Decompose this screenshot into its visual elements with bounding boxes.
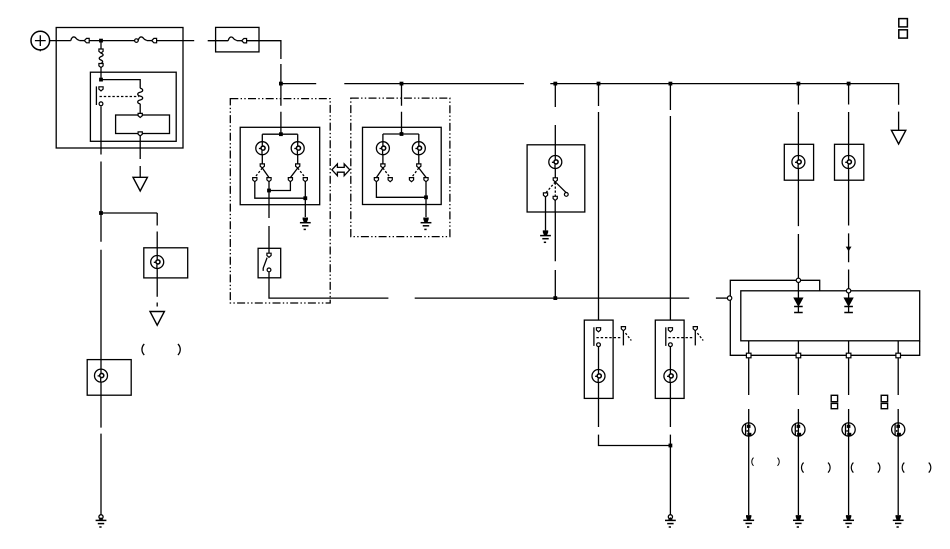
- label parens left: [142, 344, 144, 355]
- wire to coil: [101, 80, 140, 89]
- wire into headlamp LH: [280, 84, 282, 135]
- headlamp RH dash-dot enclosure: [351, 98, 450, 237]
- wire to marker lamp B: [848, 84, 850, 156]
- wire: [157, 40, 195, 42]
- switch S1: [268, 248, 270, 253]
- relay K1 coil: [138, 88, 143, 104]
- wire to flash relay 2: [669, 84, 671, 321]
- label parens lamp 4: [902, 463, 904, 473]
- relay K1 contact: [96, 86, 103, 105]
- relay K2 contact: [594, 327, 601, 346]
- label parens lamp 3: [851, 463, 853, 473]
- wire: [280, 64, 282, 84]
- module outer wire path: [730, 280, 919, 355]
- label parens lamp 2: [802, 463, 804, 473]
- lamp L2: [95, 369, 108, 382]
- lamp L4: [592, 370, 605, 383]
- headlamp LH dash-dot enclosure: [230, 99, 330, 303]
- lamp L9: [792, 423, 805, 436]
- wire main down: [100, 213, 102, 369]
- wire lamp 1 to ground: [748, 436, 750, 515]
- fusible link F4 vertical: [100, 41, 102, 49]
- wire to flash relay 1: [598, 84, 600, 321]
- ground G9: [893, 515, 904, 527]
- mechanical link dashed K2: [596, 337, 621, 339]
- switch S2 alt positions dashed: [546, 182, 556, 193]
- headlamp RH inner box: [363, 127, 442, 204]
- wire down from connector: [139, 136, 141, 177]
- lamp L7: [842, 156, 855, 169]
- fusible link F1: [71, 37, 89, 43]
- junction-fuse box (engine room R/B): [56, 28, 183, 149]
- fuse box 2: [216, 27, 259, 52]
- contact pins RH: [374, 178, 378, 182]
- flow arrow on wire: [846, 247, 852, 252]
- wire below L2: [100, 382, 102, 515]
- wire below lamp B: [848, 169, 850, 289]
- fusible link F2: [135, 39, 139, 43]
- marker lamp A box: [784, 144, 813, 180]
- node R junction: [669, 444, 673, 448]
- switch S2 NC contact: [564, 193, 568, 197]
- wire lamp 4 to ground: [897, 436, 899, 515]
- switch S2 pin left: [543, 193, 547, 197]
- filament terminals: [382, 155, 384, 164]
- node E junction: [597, 82, 601, 86]
- ground G6: [743, 515, 754, 527]
- marker lamp B box: [835, 144, 864, 180]
- wire to light control switch: [554, 84, 556, 145]
- lamp L6: [792, 156, 805, 169]
- wire lamp column 3: [848, 358, 850, 423]
- wire lamp column 4: [897, 358, 899, 423]
- ground G7: [793, 515, 804, 527]
- headlamp LH inner box: [240, 127, 320, 204]
- flash relay K3 box: [655, 320, 684, 398]
- module bottom stub 4: [897, 341, 899, 353]
- wire inside S2: [554, 145, 556, 156]
- transfer arrow symbol: [332, 164, 350, 176]
- page-ref squares above lamp 3: [831, 395, 837, 401]
- tail lamp L1 box: [144, 248, 188, 278]
- wire lamp column 1: [748, 358, 750, 423]
- mechanical link dashed K3: [668, 337, 693, 339]
- node M junction: [267, 189, 271, 193]
- wire contact to lamp: [598, 347, 600, 370]
- lamp L10: [842, 423, 855, 436]
- wire into headlamp RH: [401, 84, 403, 134]
- ground G2: [300, 218, 311, 230]
- switch S2 blade: [555, 182, 566, 193]
- node N junction: [303, 196, 307, 200]
- wire to filaments: [383, 134, 419, 142]
- inner net wires: [269, 182, 290, 191]
- node G junction: [797, 82, 801, 86]
- connector block inside relay: [116, 115, 170, 134]
- label parens lamp 1: [752, 458, 754, 466]
- wire: [89, 40, 134, 42]
- terminal module top 2: [846, 289, 850, 293]
- wire S2 output: [554, 200, 556, 298]
- headlamp LH high filament: [291, 142, 304, 155]
- wire fuse to headlamp feed: [247, 41, 281, 59]
- off-page arrow right: [891, 130, 905, 144]
- page-ref squares top right: [899, 19, 908, 27]
- wire bus segment B: [344, 83, 524, 85]
- wire to fuse box 2: [208, 40, 229, 42]
- wire tail bus horizontal: [415, 297, 690, 299]
- terminal square 2: [796, 353, 801, 358]
- node P junction: [424, 195, 428, 199]
- outer net wires: [255, 182, 305, 199]
- off-page arrow left 1: [133, 177, 147, 191]
- terminal square 1: [746, 353, 751, 358]
- battery B1: [31, 31, 50, 51]
- indicator lamp L3: [549, 156, 562, 169]
- light control switch S2 box: [527, 145, 585, 212]
- wire inside: [156, 248, 158, 256]
- wire to dimmer switch: [268, 191, 270, 249]
- lamp L1: [151, 256, 164, 269]
- node HL junction: [279, 132, 283, 136]
- wire tail bus to module: [716, 297, 728, 299]
- ground G5: [665, 515, 676, 527]
- node D junction: [553, 82, 557, 86]
- wire below L1: [156, 269, 158, 307]
- wire to filaments: [262, 134, 297, 142]
- terminal module top 1: [796, 278, 800, 282]
- filament terminals: [261, 155, 263, 164]
- switch blades LH: [262, 168, 269, 177]
- wire to ground: [425, 197, 427, 217]
- dimmer switch S1 box: [258, 248, 281, 277]
- wire S2 to ground: [545, 197, 547, 230]
- module box U1: [741, 291, 920, 341]
- external lever K2: [621, 327, 631, 346]
- switch blades RH: [377, 168, 383, 177]
- node H junction: [847, 82, 851, 86]
- wire into diode 2: [848, 293, 850, 298]
- module bottom stub 1: [748, 341, 750, 353]
- page-ref squares above lamp 4: [881, 395, 887, 401]
- terminal square 3: [846, 353, 851, 358]
- pin top: [138, 113, 142, 117]
- node B junction: [279, 82, 283, 86]
- lamp L5: [664, 370, 677, 383]
- wire to tail lamp: [101, 213, 157, 248]
- diode D1: [794, 298, 803, 306]
- mechanical link dashed: [100, 96, 140, 98]
- wire S1 output: [269, 278, 388, 298]
- module bottom stub 2: [797, 341, 799, 353]
- headlamp RH high filament: [412, 142, 425, 155]
- wire bus segment C: [550, 84, 898, 131]
- wire relay output down: [100, 106, 102, 213]
- contact pins LH: [253, 178, 257, 182]
- ground G1: [96, 515, 107, 527]
- ground G3: [421, 218, 432, 230]
- module bottom stub 3: [848, 341, 850, 353]
- outer net wires: [376, 182, 426, 198]
- lamp L8: [742, 423, 755, 436]
- wire below L4: [599, 383, 671, 446]
- terminal square 4: [896, 353, 901, 358]
- pin bottom: [138, 132, 142, 136]
- fuse F3: [228, 37, 246, 43]
- wire into diode 1: [797, 283, 799, 299]
- tail lamp L2 box: [87, 360, 131, 396]
- node HR junction: [400, 132, 404, 136]
- wire lamp 2 to ground: [797, 436, 799, 515]
- switch S2 common pin: [553, 178, 557, 182]
- switch S2 pin bottom: [553, 196, 557, 200]
- diode D2: [844, 298, 853, 306]
- node Q junction: [553, 296, 557, 300]
- wire bus segment A: [281, 83, 316, 85]
- ground G8: [843, 515, 854, 527]
- wire to marker lamp A: [797, 84, 799, 156]
- node K1 junction: [99, 78, 103, 82]
- terminal module left: [727, 296, 731, 300]
- external lever K3: [693, 327, 703, 346]
- node A junction: [99, 39, 103, 43]
- flash relay K2 box: [584, 320, 613, 398]
- headlamp LH low filament: [256, 142, 269, 155]
- wire below lamp A: [797, 169, 799, 279]
- wire to ground: [304, 198, 306, 217]
- wire battery to fuse box: [50, 40, 71, 42]
- wire lamp column 2: [797, 358, 799, 423]
- relay K3 contact: [666, 327, 673, 346]
- ground G4: [540, 230, 551, 242]
- lamp L11: [892, 423, 905, 436]
- headlamp RH low filament: [376, 142, 389, 155]
- wire contact to lamp: [669, 347, 671, 370]
- wire coil to connector: [139, 104, 141, 114]
- node F junction: [669, 82, 673, 86]
- wire to switch common: [554, 169, 556, 178]
- wire below L5: [669, 383, 671, 515]
- headlamp relay K1 box: [90, 72, 176, 141]
- wire into relay: [100, 68, 102, 80]
- off-page arrow left 2: [150, 312, 164, 326]
- node L junction: [99, 211, 103, 215]
- node C junction: [400, 82, 404, 86]
- wire lamp 3 to ground: [848, 436, 850, 515]
